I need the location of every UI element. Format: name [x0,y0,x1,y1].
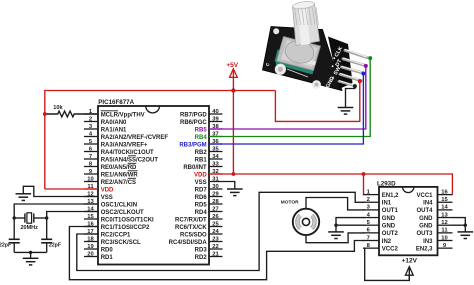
svg-text:RA3/AN3/VREF+: RA3/AN3/VREF+ [101,142,148,148]
svg-text:IN3: IN3 [423,239,433,245]
svg-text:GND: GND [419,216,433,222]
wire OSC1 pin13 to crystal and C1 [14,204,98,239]
pin 29 RD6 [195,191,223,201]
svg-text:EN1,2: EN1,2 [382,193,399,199]
wire C1 bottom to ground rail [14,243,47,253]
svg-text:RC6/TX/CK: RC6/TX/CK [175,225,207,231]
power +12V [402,258,418,281]
ground at encoder module [338,108,354,115]
ground at L293D pins 4,5 [328,232,344,239]
wire L293D GND pins 4,5 to ground [336,218,365,232]
pin 4 GND (U2) [363,212,396,222]
svg-text:12: 12 [87,191,93,197]
pin 18 RC3/SCK/SCL [84,236,141,246]
svg-text:22pF: 22pF [0,242,11,248]
pin 38 RB5 [195,124,223,134]
wire +5V to encoder + pin [275,81,359,121]
svg-text:RB0/INT: RB0/INT [183,165,207,171]
svg-text:IN1: IN1 [382,201,392,207]
svg-text:+12V: +12V [402,258,418,265]
pin 13 OSC1/CLKIN [84,199,137,209]
svg-text:OUT3: OUT3 [416,231,433,237]
svg-text:RB5: RB5 [195,127,208,133]
svg-text:RE0/AN5/RD: RE0/AN5/RD [101,165,137,171]
svg-text:20: 20 [87,251,93,257]
svg-text:RD3: RD3 [195,247,208,253]
svg-text:RC5/SDO: RC5/SDO [180,232,207,238]
ground at PIC VSS pin31 [227,189,243,196]
wire RB4 to encoder CLK (green) [209,58,370,136]
pin 14 OSC2/CLKOUT [84,206,144,216]
motor driver U2 L293D [379,187,438,255]
svg-text:40: 40 [212,109,218,115]
svg-text:28: 28 [212,199,219,205]
pin 17 RC2/CCP1 [84,229,131,239]
svg-text:L293D: L293D [377,181,396,188]
svg-text:27: 27 [212,206,218,212]
svg-text:22pF: 22pF [49,242,61,248]
svg-text:13: 13 [87,199,94,205]
svg-text:IN2: IN2 [382,239,392,245]
wire RB5 to encoder DT (purple) [209,66,366,129]
svg-text:2: 2 [367,197,370,203]
svg-text:VDD: VDD [101,187,114,193]
svg-text:VCC2: VCC2 [382,246,399,252]
pin 2 IN1 (U2) [363,197,392,207]
svg-text:RC1/T1OSI/CCP2: RC1/T1OSI/CCP2 [101,225,150,231]
pin 25 RC6/TX/CK [175,221,222,231]
wire crystal left lead [14,217,25,219]
svg-text:12: 12 [441,220,447,226]
svg-text:11: 11 [87,184,94,190]
pin 15 IN4 (U2) [423,197,452,207]
svg-text:10: 10 [441,235,447,241]
svg-text:VSS: VSS [101,195,113,201]
wire +5V rail to L293D VCC1 [209,174,452,195]
junction L293D right GND [464,224,467,227]
svg-text:7: 7 [89,154,92,160]
pin 5 GND (U2) [363,220,396,230]
junction crystal left [13,216,16,219]
pin 6 RA4/T0CKI/C1OUT [84,146,154,156]
svg-text:25: 25 [212,221,219,227]
svg-text:19: 19 [87,244,94,250]
pin 22 RD3 [195,244,223,254]
pin 3 OUT1 (U2) [363,205,398,215]
pin 8 VCC2 (U2) [363,243,398,253]
svg-text:RC0/T1OSO/T1CKI: RC0/T1OSO/T1CKI [101,217,154,223]
ground below crystal capacitors [23,258,39,265]
wire L293D GND pins 12,13 to ground [452,218,465,232]
svg-text:IN4: IN4 [423,201,433,207]
pin 40 RB7/PGD [180,109,222,119]
svg-text:RB3/PGM: RB3/PGM [179,142,206,148]
svg-text:RD4: RD4 [195,210,208,216]
pin 3 RA1/AN1 [84,124,127,134]
wire RC1/CCP2 pin16 to L293D IN2 [69,227,364,280]
svg-text:37: 37 [212,131,218,137]
wire L293D VCC2 pin 8 to +12V [364,248,409,280]
wire motor bottom terminal to L293D OUT2 [306,233,365,243]
pin 11 OUT3 (U2) [416,228,452,238]
svg-text:RA1/AN1: RA1/AN1 [101,127,127,133]
pin 2 RA0/AN0 [84,116,127,126]
wire +5V vertical to PIC VDD pin 32 [232,91,234,175]
label U1 name PIC16F877A [98,99,134,106]
pin 26 RC7/RX/DT [175,214,222,224]
svg-text:RA5/AN4/SS/C2OUT: RA5/AN4/SS/C2OUT [101,157,159,163]
pin 32 VDD [194,169,222,179]
pin 13 GND (U2) [419,212,452,222]
junction crystal right [45,216,48,219]
svg-text:36: 36 [212,139,219,145]
svg-text:RD5: RD5 [195,202,208,208]
label U2 name L293D [377,181,396,188]
svg-text:RA2/AN2/VREF-/CVREF: RA2/AN2/VREF-/CVREF [101,135,169,141]
svg-text:RE1/AN6/WR: RE1/AN6/WR [101,172,139,178]
ground at PIC VSS pin12 [16,194,32,201]
junction at R1 / +5V rail [43,112,47,116]
svg-text:VSS: VSS [195,180,207,186]
svg-text:PIC16F877A: PIC16F877A [98,99,134,106]
svg-text:RB2: RB2 [195,150,208,156]
pin 16 VCC1 (U2) [416,189,452,199]
svg-text:7: 7 [367,235,370,241]
svg-text:MCLR/Vpp/THV: MCLR/Vpp/THV [101,112,145,118]
pin 28 RD5 [195,199,223,209]
svg-text:15: 15 [87,214,94,220]
svg-text:31: 31 [212,176,219,182]
label motor M1 [281,199,299,205]
svg-text:VCC1: VCC1 [416,193,433,199]
junction at +5V arrow [231,88,235,92]
svg-text:RB4: RB4 [195,135,208,141]
svg-text:RD1: RD1 [101,255,114,261]
pin 16 RC1/T1OSI/CCP2 [84,221,150,231]
svg-text:EN2,3: EN2,3 [416,246,433,252]
svg-text:13: 13 [441,212,448,218]
svg-text:17: 17 [87,229,93,235]
wire +5V to PIC VDD pin 11 [45,188,98,190]
svg-text:18: 18 [87,236,94,242]
capacitor C1 22pF [9,239,20,243]
svg-text:10k: 10k [53,105,63,111]
label R1 value 10k [53,105,63,111]
pin 21 RD2 [195,251,223,260]
svg-text:26: 26 [212,214,219,220]
wire RB3 to encoder SW (blue) [209,74,363,145]
pin 36 RB3/PGM [179,139,222,149]
svg-text:RD6: RD6 [195,195,208,201]
rotary encoder module KY-040 (photo) [263,0,368,90]
microcontroller U1 PIC16F877A [98,106,209,265]
pin 6 OUT2 (U2) [363,228,398,238]
pin 10 RE2/AN7/CS [84,176,136,186]
svg-text:32: 32 [212,169,218,175]
svg-text:RD2: RD2 [195,255,208,261]
svg-text:2: 2 [89,116,92,122]
wire ground stem below capacitors [30,252,32,258]
node encoder CLK wire end [368,56,372,60]
crystal X1 [25,213,34,223]
svg-text:RA4/T0CKI/C1OUT: RA4/T0CKI/C1OUT [101,150,154,156]
svg-text:15: 15 [441,197,448,203]
svg-text:OUT2: OUT2 [382,231,399,237]
pin 27 RD4 [195,206,223,216]
label X1 value 20MHz [20,225,38,231]
svg-text:23: 23 [212,236,219,242]
pin 30 RD7 [195,184,223,194]
svg-text:RE2/AN7/CS: RE2/AN7/CS [101,180,136,186]
pin 37 RB4 [195,131,223,141]
pin 9 RE1/AN6/WR [84,169,138,179]
svg-text:16: 16 [441,189,448,195]
svg-text:RA0/AN0: RA0/AN0 [101,120,127,126]
wire PIC VSS pin31 to ground [223,182,235,190]
pin 12 VSS [84,191,113,201]
svg-text:RC2/CCP1: RC2/CCP1 [101,232,131,238]
svg-text:GND: GND [382,216,396,222]
pin 7 IN2 (U2) [363,235,392,245]
pin 7 RA5/AN4/SS/C2OUT [84,154,158,164]
pin 19 RD0 [84,244,113,254]
resistor R1 10k pull-up on MCLR [45,111,98,117]
wire +5V net: top rail from left corner to encoder branch [45,91,276,190]
motor M1 [293,209,319,235]
ground at L293D pins 12,13 [458,232,474,239]
svg-text:OSC1/CLKIN: OSC1/CLKIN [101,202,137,208]
svg-text:22: 22 [212,244,218,250]
svg-text:33: 33 [212,161,219,167]
node encoder GND wire end [353,84,357,88]
svg-text:VDD: VDD [194,172,207,178]
pin 11 VDD [84,184,114,194]
pin 8 RE0/AN5/RD [84,161,137,171]
node encoder SW wire end [361,72,365,76]
svg-text:21: 21 [212,251,219,257]
svg-text:11: 11 [441,228,448,234]
wire C2 bottom to ground rail [46,243,48,253]
junction capacitor ground rail [29,251,32,254]
junction at VDD pin 32 rail [232,172,236,176]
pin 1 EN1,2 (U2) [363,189,399,199]
wire encoder GND pin to ground [346,86,355,107]
pin 4 RA2/AN2/VREF-/CVREF [84,131,168,141]
wire PIC VSS pin12 to ground [23,186,98,196]
svg-text:20MHz: 20MHz [20,225,38,231]
svg-text:30: 30 [212,184,218,190]
svg-text:14: 14 [441,205,448,211]
svg-text:38: 38 [212,124,219,130]
pin 35 RB2 [195,146,223,156]
pin 34 RB1 [195,154,223,164]
svg-text:RC3/SCK/SCL: RC3/SCK/SCL [101,240,141,246]
node encoder + wire end [358,79,362,83]
pin 14 OUT4 (U2) [416,205,452,215]
svg-text:RD7: RD7 [195,187,208,193]
wire crystal right lead [34,217,47,219]
wire +5V branch to L293D EN1,2 pin 1 [364,174,365,195]
svg-text:GND: GND [419,224,433,230]
svg-text:GND: GND [382,224,396,230]
svg-text:39: 39 [212,116,219,122]
label C2 value 22pF [49,242,61,248]
junction L293D left GND [334,224,337,227]
pin 15 RC0/T1OSO/T1CKI [84,214,154,224]
svg-text:MOTOR: MOTOR [281,199,299,205]
wire OSC2 pin14 to crystal and C2 [47,212,98,240]
junction at EN1,2 branch [362,172,366,176]
pin 33 RB0/INT [183,161,222,171]
pin 24 RC5/SDO [180,229,222,239]
svg-text:+5V: +5V [226,62,238,69]
svg-text:OSC2/CLKOUT: OSC2/CLKOUT [101,210,144,216]
pin 23 RC4/SDI/SDA [169,236,223,246]
svg-text:OUT1: OUT1 [382,208,399,214]
svg-text:14: 14 [87,206,94,212]
label C1 value 22pF [0,242,11,248]
svg-text:RB7/PGD: RB7/PGD [180,112,207,118]
capacitor C2 22pF [41,239,52,243]
node encoder DT wire end [364,64,368,68]
pin 9 EN2,3 (U2) [416,243,453,253]
pin 39 RB6/PGC [180,116,222,126]
svg-text:RB6/PGC: RB6/PGC [180,120,207,126]
pin 12 GND (U2) [419,220,452,230]
svg-text:RB1: RB1 [195,157,208,163]
svg-text:10: 10 [87,176,93,182]
svg-text:34: 34 [212,154,219,160]
pin 31 VSS [195,176,223,186]
svg-text:RC7/RX/DT: RC7/RX/DT [175,217,207,223]
svg-text:OUT4: OUT4 [416,208,433,214]
pin 1 MCLR/Vpp/THV [84,109,145,119]
svg-text:RC4/SDI/SDA: RC4/SDI/SDA [169,240,208,246]
svg-text:16: 16 [87,221,94,227]
svg-text:RD0: RD0 [101,247,114,253]
pin 10 IN3 (U2) [423,235,452,245]
svg-text:24: 24 [212,229,219,235]
power +5V [226,62,238,91]
pin 20 RD1 [84,251,113,260]
wire RC2/CCP1 pin17 to L293D IN1 [77,192,365,270]
pin 5 RA3/AN3/VREF+ [84,139,148,149]
svg-text:35: 35 [212,146,219,152]
wire motor top terminal to L293D OUT1 [306,198,365,210]
svg-text:29: 29 [212,191,219,197]
